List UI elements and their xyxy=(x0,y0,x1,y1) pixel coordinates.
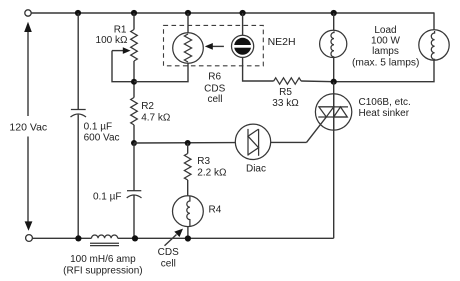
wire triac main vertical xyxy=(333,82,335,239)
svg-text:cell: cell xyxy=(161,259,176,270)
svg-text:0.1 µF: 0.1 µF xyxy=(93,191,122,202)
node: top rail junction at lamp branch xyxy=(331,10,337,16)
svg-text:4.7 kΩ: 4.7 kΩ xyxy=(141,113,171,124)
wire R6 branch top xyxy=(187,13,189,33)
wire lamp1 bottom xyxy=(333,57,335,81)
wire NE2H branch top xyxy=(242,13,244,35)
wire diac to gate diagonal xyxy=(271,141,307,143)
svg-text:100 W: 100 W xyxy=(371,36,400,47)
label CDS cell (R4) with arrow xyxy=(158,229,183,270)
wire R3 to R4 xyxy=(187,180,189,196)
node: junction lamps / R5 / triac xyxy=(331,79,337,85)
svg-text:(max. 5 lamps): (max. 5 lamps) xyxy=(352,58,419,69)
lamp L2 (100 W load) xyxy=(419,30,449,60)
wire top rail xyxy=(31,12,434,14)
source line 120 Vac xyxy=(9,22,47,231)
svg-text:Diac: Diac xyxy=(246,163,266,174)
capacitor C1 0.1uF 600Vac xyxy=(71,110,120,144)
node: bottom junction R4 xyxy=(185,235,191,241)
wire C1 branch upper xyxy=(77,13,79,109)
wire R2 bottom to junction xyxy=(133,125,135,143)
wire NE2H bottom to R5 xyxy=(243,57,274,81)
svg-text:33 kΩ: 33 kΩ xyxy=(272,98,299,109)
up arrowhead of source xyxy=(24,22,32,32)
svg-text:R3: R3 xyxy=(197,156,210,167)
wire bottom rail right xyxy=(118,237,334,239)
wire R4 bottom xyxy=(187,227,189,239)
svg-text:R5: R5 xyxy=(279,87,292,98)
svg-text:CDS: CDS xyxy=(204,84,225,95)
resistor R5 33k xyxy=(272,78,301,109)
dashed box optical coupler xyxy=(164,25,264,65)
down arrowhead of source xyxy=(25,221,33,230)
terminal bottom-left (120 Vac input -) xyxy=(26,235,33,242)
resistor R3 2.2k xyxy=(184,154,227,181)
wire R5 to triac junction xyxy=(301,80,334,83)
wire R1 branch top xyxy=(133,13,135,30)
wire C2 bottom xyxy=(133,195,135,238)
svg-text:R4: R4 xyxy=(209,205,222,216)
svg-text:lamps: lamps xyxy=(372,46,399,57)
svg-text:600 Vac: 600 Vac xyxy=(84,132,120,143)
svg-text:120 Vac: 120 Vac xyxy=(9,122,47,134)
wire junction to C2 xyxy=(133,143,135,191)
diac D1 xyxy=(235,124,270,174)
inductor L3 100mH RFI xyxy=(63,235,142,276)
capacitor C2 0.1uF xyxy=(93,191,142,203)
R1 wiper wire xyxy=(112,51,132,82)
svg-text:Load: Load xyxy=(374,25,396,36)
light arrow NE2H to R6 xyxy=(205,43,224,50)
svg-text:C106B, etc.: C106B, etc. xyxy=(359,97,411,108)
node: bottom junction C2 xyxy=(132,235,138,241)
svg-text:NE2H: NE2H xyxy=(268,36,296,48)
triac Q1 C106B xyxy=(307,94,411,143)
node: junction R3 tap xyxy=(185,140,191,146)
wire R3 top xyxy=(187,143,189,154)
photocell R4 CDS cell xyxy=(173,196,222,227)
svg-text:100 kΩ: 100 kΩ xyxy=(96,35,128,46)
svg-text:R6: R6 xyxy=(208,72,221,83)
wire lamp2 branch (top rail corner down) xyxy=(433,12,435,30)
wire lamp1 branch top xyxy=(333,13,335,30)
label Load lamps xyxy=(352,25,419,69)
wire C1 branch lower xyxy=(77,115,79,239)
svg-text:CDS: CDS xyxy=(158,247,179,258)
triac gate lead xyxy=(307,117,327,142)
svg-text:cell: cell xyxy=(207,94,222,105)
node: junction R1 wiper / R2 / wire to R6 xyxy=(131,79,137,85)
terminal top-left (120 Vac input +) xyxy=(25,10,31,16)
svg-text:0.1 µF: 0.1 µF xyxy=(84,122,113,133)
node: top rail junction at NE2H branch xyxy=(240,10,246,16)
svg-text:R2: R2 xyxy=(141,101,154,112)
svg-text:2.2 kΩ: 2.2 kΩ xyxy=(197,168,227,179)
resistor R1 100k potentiometer xyxy=(96,25,138,82)
wire mid rail to R6 bottom xyxy=(134,63,188,81)
svg-text:100 mH/6 amp: 100 mH/6 amp xyxy=(70,254,136,265)
wire gate rail left xyxy=(134,142,235,144)
neon lamp NE2H xyxy=(232,35,296,57)
wire between R1 and R2 xyxy=(133,61,135,98)
wire bottom rail left xyxy=(33,237,92,239)
photocell R6 CDS cell xyxy=(173,33,226,105)
node: junction R2 / C2 / gate rail xyxy=(131,140,137,146)
node: top rail junction at C1 branch xyxy=(75,10,81,16)
svg-text:Heat sinker: Heat sinker xyxy=(359,108,410,119)
node: top rail junction at R1 branch xyxy=(131,10,137,16)
wire lamp2 bottom to junction xyxy=(334,60,434,82)
node: bottom junction C1 xyxy=(75,235,81,241)
svg-text:(RFI suppression): (RFI suppression) xyxy=(63,266,142,277)
R1 wiper arrow xyxy=(112,50,124,52)
lamp L1 (100 W load) xyxy=(320,30,347,57)
resistor R2 4.7k xyxy=(131,98,171,125)
node: top rail junction at R6 branch xyxy=(185,10,191,16)
